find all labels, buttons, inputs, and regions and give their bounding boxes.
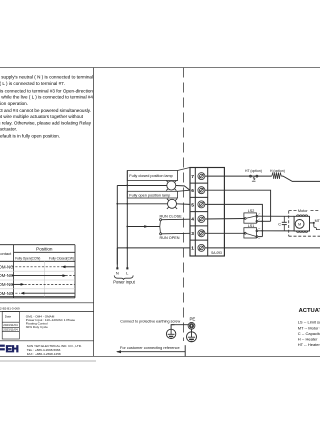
svg-text:Fully closed position lamp: Fully closed position lamp bbox=[129, 174, 172, 178]
terminal screws bbox=[198, 173, 205, 252]
row labels bbox=[0, 264, 14, 295]
svg-text:PE: PE bbox=[190, 316, 196, 321]
svg-text:Date: Date bbox=[5, 314, 12, 318]
wire N bus to lamp L1 bbox=[117, 185, 167, 187]
svg-text:7: 7 bbox=[191, 174, 194, 180]
svg-text:Fully Closed(CW): Fully Closed(CW) bbox=[49, 256, 74, 260]
svg-text:1COM-NC: 1COM-NC bbox=[0, 264, 13, 269]
svg-text:Connect to protective earthing: Connect to protective earthing screw bbox=[120, 319, 180, 323]
neutral wire to terminal 1 bbox=[117, 247, 190, 249]
terminal 4 internal wire bbox=[205, 218, 246, 221]
svg-text:B-17-B2-B2-B1-3-069: B-17-B2-B2-B1-3-069 bbox=[0, 306, 20, 310]
terminal 3 internal wire bbox=[205, 232, 246, 234]
svg-text:Do not wire multiple actuators: Do not wire multiple actuators together … bbox=[0, 114, 84, 119]
frame bottom border bbox=[0, 356, 320, 358]
frame outer trim line bbox=[0, 360, 96, 362]
svg-text:Fully Open(CCW): Fully Open(CCW) bbox=[15, 256, 40, 260]
svg-text:for each actuator.: for each actuator. bbox=[0, 127, 17, 132]
contact table bbox=[0, 245, 75, 298]
svg-text:for Close-direction operation.: for Close-direction operation. bbox=[0, 101, 28, 106]
N bus vertical bbox=[116, 185, 118, 264]
svg-text:3: 3 bbox=[191, 231, 194, 237]
LS contact marks bbox=[258, 214, 260, 239]
motor M circle bbox=[295, 220, 304, 229]
address bbox=[27, 344, 82, 356]
svg-text:SA-093: SA-093 bbox=[211, 251, 222, 255]
frame vertical divider bbox=[93, 68, 95, 357]
description text bbox=[26, 315, 76, 330]
lamp L1 fully closed bbox=[166, 180, 176, 190]
row 4 state line bbox=[12, 292, 21, 294]
L bus vertical bbox=[126, 171, 128, 268]
svg-text:C -- Capacitor: C -- Capacitor bbox=[298, 331, 320, 336]
wire N bus to lamp L2 bbox=[117, 203, 167, 205]
svg-text:For customer connecting refere: For customer connecting reference bbox=[120, 346, 180, 350]
wire PE screw to internal earth bbox=[191, 329, 193, 332]
svg-text:MT -- Motor thermal protector: MT -- Motor thermal protector bbox=[298, 325, 320, 330]
svg-text:4: 4 bbox=[191, 217, 194, 223]
svg-text:2COM-NC: 2COM-NC bbox=[0, 282, 13, 287]
svg-text:M: M bbox=[298, 222, 301, 226]
svg-text:operation, while the live ( L: operation, while the live ( L ) is conne… bbox=[0, 95, 93, 100]
svg-text:30% Duty Cycle: 30% Duty Cycle bbox=[26, 325, 48, 329]
svg-text:Power input: Power input bbox=[113, 279, 135, 284]
svg-text:isolating relay. Otherwise, pl: isolating relay. Otherwise, please add I… bbox=[0, 120, 92, 125]
internal earth symbol bbox=[187, 332, 197, 342]
terminal 6 internal wire bbox=[205, 190, 271, 221]
svg-text:Motor: Motor bbox=[298, 209, 308, 213]
wire lamp L2 to terminal 5 bbox=[177, 203, 191, 206]
svg-text:6: 6 bbox=[191, 188, 194, 194]
LS1 NC wire motor B bbox=[258, 230, 294, 232]
PE screw bbox=[188, 322, 195, 329]
callout box open lamp bbox=[127, 190, 189, 198]
svg-text:ACTUATOR: ACTUATOR bbox=[299, 308, 320, 314]
svg-text:C: C bbox=[278, 223, 281, 227]
motor output wire bbox=[310, 222, 314, 224]
wire lamp L1 to terminal 6 bbox=[176, 186, 190, 191]
svg-text:N: N bbox=[116, 270, 119, 275]
svg-text:HT (option): HT (option) bbox=[245, 169, 262, 173]
wire H to edge bbox=[281, 176, 320, 181]
callout box closed lamp bbox=[127, 168, 189, 181]
svg-text:HT -- Heater thermostat: HT -- Heater thermostat bbox=[298, 342, 320, 347]
terminal block SA-093 bbox=[190, 168, 224, 257]
svg-text:FAX : +886-4-2698-1258: FAX : +886-4-2698-1258 bbox=[27, 352, 61, 356]
Sun Yeh logo bbox=[0, 344, 19, 355]
row 3 state line bbox=[12, 283, 22, 285]
svg-text:Contact: Contact bbox=[0, 251, 12, 256]
power input L arrow bbox=[126, 267, 128, 269]
title block outline bbox=[0, 340, 94, 342]
wire customer earth to PE screw bbox=[171, 325, 188, 330]
svg-text:#1, and that the live ( L ) is: #1, and that the live ( L ) is connected… bbox=[0, 81, 65, 86]
LS1 NO wire to terminal 5 drop bbox=[258, 236, 263, 238]
svg-text:5: 5 bbox=[191, 202, 194, 208]
svg-text:The live ( L ) is connected to: The live ( L ) is connected to terminal … bbox=[0, 88, 93, 93]
svg-text:MT: MT bbox=[315, 219, 320, 223]
svg-text:RUN CLOSE: RUN CLOSE bbox=[160, 215, 183, 219]
customer earth symbol bbox=[166, 329, 175, 338]
motor winding box bbox=[294, 216, 309, 231]
terminal 5 internal wire bbox=[205, 204, 263, 236]
junction dot L bus bbox=[126, 247, 128, 249]
svg-text:Fully open position lamp: Fully open position lamp bbox=[129, 193, 170, 197]
svg-text:Make sure that the power suppl: Make sure that the power supply's neutra… bbox=[0, 75, 93, 80]
actuator boundary dashed line bbox=[183, 68, 185, 342]
crossing dots bbox=[262, 220, 264, 222]
switch feed wire with arrow bbox=[127, 226, 160, 228]
row 2 state line bbox=[12, 275, 64, 277]
terminal numbers bbox=[191, 174, 194, 252]
svg-text:Factory default is in fully op: Factory default is in fully open positio… bbox=[0, 133, 60, 138]
terminal 1 internal wire bbox=[205, 247, 320, 249]
svg-text:2023/11/04: 2023/11/04 bbox=[3, 328, 18, 332]
date box bbox=[2, 312, 19, 340]
motor dashed enclosure bbox=[289, 211, 320, 237]
frame top border bbox=[0, 67, 320, 69]
svg-text:Position: Position bbox=[36, 246, 53, 251]
svg-text:1: 1 bbox=[191, 246, 194, 252]
terminal 7 internal wire bbox=[205, 175, 272, 177]
svg-text:H -- Heater: H -- Heater bbox=[298, 337, 318, 342]
note text block bbox=[0, 75, 93, 139]
svg-text:LS -- Limit switch: LS -- Limit switch bbox=[298, 320, 320, 325]
svg-text:H (option): H (option) bbox=[270, 169, 285, 173]
power input brace bbox=[114, 275, 133, 279]
LS2 NO wire to terminal 6 drop bbox=[258, 220, 271, 222]
power input N arrow bbox=[116, 248, 118, 268]
title block part number row bbox=[0, 302, 94, 304]
LS2 NC wire motor A bbox=[258, 215, 294, 217]
lamp L2 fully open bbox=[167, 199, 177, 209]
svg-text:Terminal #3 and #4 cannot be p: Terminal #3 and #4 cannot be powered sim… bbox=[0, 108, 91, 113]
legend bbox=[298, 320, 320, 347]
row 1 state line bbox=[12, 266, 63, 268]
svg-text:RUN OPEN: RUN OPEN bbox=[160, 236, 180, 240]
svg-text:EH: EH bbox=[6, 344, 19, 355]
